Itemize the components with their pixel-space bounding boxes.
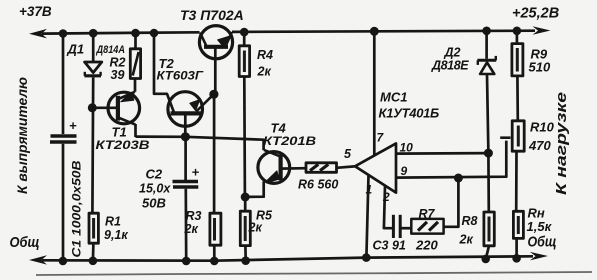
svg-text:R1: R1 <box>105 215 121 229</box>
svg-text:9: 9 <box>401 164 408 178</box>
svg-text:2к: 2к <box>184 222 199 236</box>
svg-text:39: 39 <box>111 68 125 82</box>
svg-text:R3: R3 <box>186 209 202 223</box>
svg-text:R10: R10 <box>530 120 555 135</box>
svg-text:С3 91: С3 91 <box>373 239 406 253</box>
svg-text:+: + <box>69 118 77 133</box>
svg-text:КТ203В: КТ203В <box>96 138 150 152</box>
svg-text:50В: 50В <box>142 196 166 211</box>
svg-text:R6 560: R6 560 <box>298 178 338 192</box>
svg-text:С1 1000,0х50В: С1 1000,0х50В <box>72 161 84 258</box>
svg-text:2к: 2к <box>459 233 474 247</box>
svg-text:Общ: Общ <box>528 234 557 251</box>
svg-text:К выпрямителю: К выпрямителю <box>14 77 30 194</box>
svg-text:МС1: МС1 <box>380 90 407 105</box>
svg-text:220: 220 <box>415 238 438 253</box>
svg-text:1,5к: 1,5к <box>527 219 553 234</box>
svg-text:Д814А: Д814А <box>96 44 125 56</box>
svg-text:Д2: Д2 <box>444 46 461 60</box>
svg-text:КТ201В: КТ201В <box>263 134 316 148</box>
svg-text:510: 510 <box>529 60 551 75</box>
svg-text:2к: 2к <box>257 65 272 79</box>
svg-text:R8: R8 <box>462 214 478 228</box>
svg-text:+37В: +37В <box>19 4 52 19</box>
svg-text:Т3 П702А: Т3 П702А <box>180 7 244 23</box>
svg-text:Д818Е: Д818Е <box>431 59 469 73</box>
svg-text:R4: R4 <box>257 48 273 62</box>
svg-text:К1УТ401Б: К1УТ401Б <box>379 106 440 121</box>
svg-text:2: 2 <box>382 190 390 204</box>
svg-text:+25,2В: +25,2В <box>512 6 559 22</box>
svg-text:КТ603Г: КТ603Г <box>157 69 204 83</box>
svg-text:Д1: Д1 <box>67 42 85 57</box>
svg-text:15,0х: 15,0х <box>139 182 171 196</box>
svg-text:С2: С2 <box>146 167 163 182</box>
svg-text:1: 1 <box>366 183 373 197</box>
svg-text:R7: R7 <box>419 207 436 221</box>
svg-text:2к: 2к <box>248 221 263 235</box>
svg-text:Общ: Общ <box>10 234 40 251</box>
svg-text:470: 470 <box>528 138 551 153</box>
svg-text:5: 5 <box>344 147 352 161</box>
svg-text:9,1к: 9,1к <box>104 228 128 242</box>
svg-text:+: + <box>192 165 200 180</box>
svg-text:К нагрузке: К нагрузке <box>553 92 570 195</box>
svg-text:10: 10 <box>400 141 414 155</box>
